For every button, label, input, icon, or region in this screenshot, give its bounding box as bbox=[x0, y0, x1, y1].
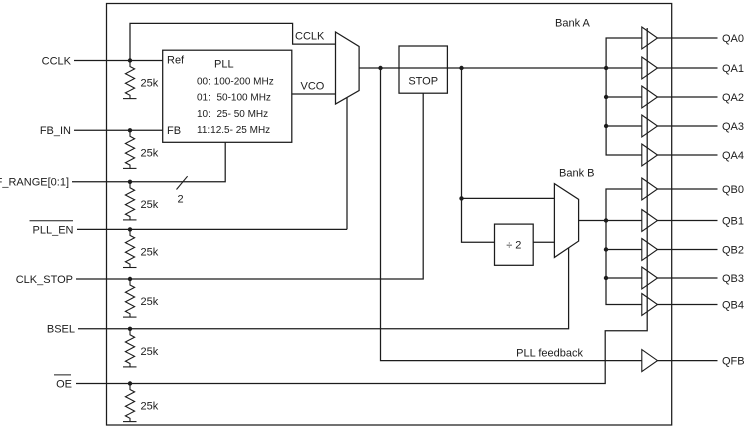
wire QB4 output bbox=[658, 304, 718, 306]
mux U3 (Bank B select) bbox=[554, 184, 578, 258]
resistor 25k (CLK_STOP) bbox=[123, 279, 137, 317]
node QB2 feed bbox=[604, 247, 608, 251]
wire OE input / output enable distribution bbox=[76, 28, 647, 384]
node FB_IN bbox=[128, 128, 132, 132]
wire QB1 output bbox=[658, 220, 718, 222]
node QA2 feed bbox=[604, 95, 608, 99]
buffer QB0 bbox=[642, 178, 658, 200]
svg-text:QA4: QA4 bbox=[722, 150, 744, 162]
wire direct input to Bank B mux bbox=[462, 197, 555, 199]
mux U2 (PLL bypass select) bbox=[336, 32, 360, 104]
divider block (divide by 2) bbox=[495, 224, 534, 265]
wire VCO output bbox=[292, 93, 336, 95]
svg-text:VCO: VCO bbox=[301, 80, 325, 92]
svg-text:2: 2 bbox=[178, 194, 184, 206]
node QA1 feed bbox=[604, 66, 608, 70]
svg-text:÷ 2: ÷ 2 bbox=[506, 240, 521, 252]
wire CCLK input bbox=[74, 60, 163, 62]
wire CCLK bypass to mux bbox=[130, 23, 336, 60]
svg-text:BSEL: BSEL bbox=[47, 324, 75, 336]
svg-text:QA1: QA1 bbox=[722, 63, 744, 75]
node divider branch bbox=[459, 196, 463, 200]
bus width slash 2 bbox=[177, 176, 188, 189]
svg-text:QB0: QB0 bbox=[722, 184, 744, 196]
svg-text:25k: 25k bbox=[141, 296, 159, 308]
STOP block bbox=[399, 46, 447, 93]
svg-text:25k: 25k bbox=[141, 199, 159, 211]
wire divider feed bbox=[462, 68, 495, 242]
wire main clock net bbox=[359, 67, 606, 69]
resistor 25k (BSEL) bbox=[123, 329, 137, 367]
wire F_RANGE bus bbox=[72, 142, 225, 182]
wire PLL_EN input bbox=[77, 228, 347, 230]
wire Bank A distribution bbox=[606, 38, 642, 155]
wire BSEL input bbox=[78, 248, 569, 329]
node QB3 feed bbox=[604, 276, 608, 280]
buffer QB2 bbox=[642, 239, 658, 261]
svg-text:QB1: QB1 bbox=[722, 215, 744, 227]
wire QA3 output bbox=[658, 125, 718, 127]
node main clock / feedback tap bbox=[378, 66, 382, 70]
wire Bank B distribution bbox=[606, 189, 642, 305]
svg-text:QA0: QA0 bbox=[722, 33, 744, 45]
buffer QA4 bbox=[642, 144, 658, 166]
svg-text:F_RANGE[0:1]: F_RANGE[0:1] bbox=[0, 177, 69, 189]
svg-text:PLL feedback: PLL feedback bbox=[516, 348, 583, 360]
wire QB3 output bbox=[658, 277, 718, 279]
svg-text:25k: 25k bbox=[141, 246, 159, 258]
svg-text:CCLK: CCLK bbox=[42, 55, 72, 67]
node QB1 feed bbox=[604, 218, 608, 222]
wire QA4 output bbox=[658, 154, 718, 156]
resistor 25k (CCLK) bbox=[123, 61, 137, 99]
svg-text:QFB: QFB bbox=[722, 356, 745, 368]
svg-text:CCLK: CCLK bbox=[295, 30, 325, 42]
node BSEL bbox=[128, 327, 132, 331]
wire QFB output bbox=[658, 360, 718, 362]
svg-text:CLK_STOP: CLK_STOP bbox=[16, 274, 73, 286]
node F_RANGE bbox=[128, 180, 132, 184]
svg-text:QB4: QB4 bbox=[722, 299, 744, 311]
buffer QB1 bbox=[642, 210, 658, 232]
svg-text:Bank A: Bank A bbox=[555, 18, 591, 30]
svg-text:QA2: QA2 bbox=[722, 92, 744, 104]
svg-text:25k: 25k bbox=[141, 401, 159, 413]
buffer QA0 bbox=[642, 27, 658, 49]
svg-text:QA3: QA3 bbox=[722, 121, 744, 133]
node CCLK bbox=[128, 58, 132, 62]
wire QB2 output bbox=[658, 249, 718, 251]
svg-text:PLL: PLL bbox=[214, 59, 234, 71]
svg-text:10: 25- 50 MHz: 10: 25- 50 MHz bbox=[197, 109, 268, 120]
wire FB_IN input bbox=[74, 129, 163, 131]
svg-text:OE: OE bbox=[56, 378, 72, 390]
node OE bbox=[128, 381, 132, 385]
svg-text:25k: 25k bbox=[141, 147, 159, 159]
resistor 25k (PLL_EN) bbox=[123, 229, 137, 267]
buffer QB4 bbox=[642, 294, 658, 316]
svg-text:PLL_EN: PLL_EN bbox=[33, 224, 74, 236]
buffer QB3 bbox=[642, 267, 658, 289]
wire PLL feedback to QFB buffer bbox=[381, 68, 642, 361]
wire QA2 output bbox=[658, 96, 718, 98]
wire mux select from PLL_EN bbox=[346, 98, 348, 230]
svg-text:Ref: Ref bbox=[167, 55, 185, 67]
buffer QA3 bbox=[642, 115, 658, 137]
svg-text:25k: 25k bbox=[141, 346, 159, 358]
node PLL_EN bbox=[128, 227, 132, 231]
resistor 25k (F_RANGE) bbox=[123, 182, 137, 220]
buffer QFB bbox=[642, 350, 658, 372]
buffer QA1 bbox=[642, 57, 658, 79]
svg-text:FB_IN: FB_IN bbox=[40, 125, 71, 137]
wire divider output bbox=[533, 241, 554, 243]
svg-text:25k: 25k bbox=[141, 78, 159, 90]
svg-text:11:12.5- 25 MHz: 11:12.5- 25 MHz bbox=[197, 125, 270, 136]
wire QA1 output bbox=[658, 67, 718, 69]
node QA3 feed bbox=[604, 124, 608, 128]
wire QA0 output bbox=[658, 37, 718, 39]
svg-text:01: 50-100 MHz: 01: 50-100 MHz bbox=[197, 93, 271, 104]
wire QB0 output bbox=[658, 188, 718, 190]
PLL block U1 bbox=[163, 50, 292, 142]
svg-text:STOP: STOP bbox=[408, 76, 438, 88]
resistor 25k (FB_IN) bbox=[123, 130, 137, 168]
svg-text:QB3: QB3 bbox=[722, 273, 744, 285]
svg-text:QB2: QB2 bbox=[722, 244, 744, 256]
svg-text:Bank B: Bank B bbox=[559, 168, 594, 180]
svg-text:00: 100-200 MHz: 00: 100-200 MHz bbox=[197, 77, 274, 88]
chip boundary bbox=[107, 4, 672, 426]
wire Bank B mux output bbox=[579, 220, 606, 222]
node main clock / divider tap bbox=[459, 66, 463, 70]
wire CLK_STOP input bbox=[76, 93, 423, 279]
svg-text:FB: FB bbox=[167, 125, 181, 137]
node CLK_STOP bbox=[128, 277, 132, 281]
resistor 25k (OE) bbox=[123, 384, 137, 422]
buffer QA2 bbox=[642, 86, 658, 108]
